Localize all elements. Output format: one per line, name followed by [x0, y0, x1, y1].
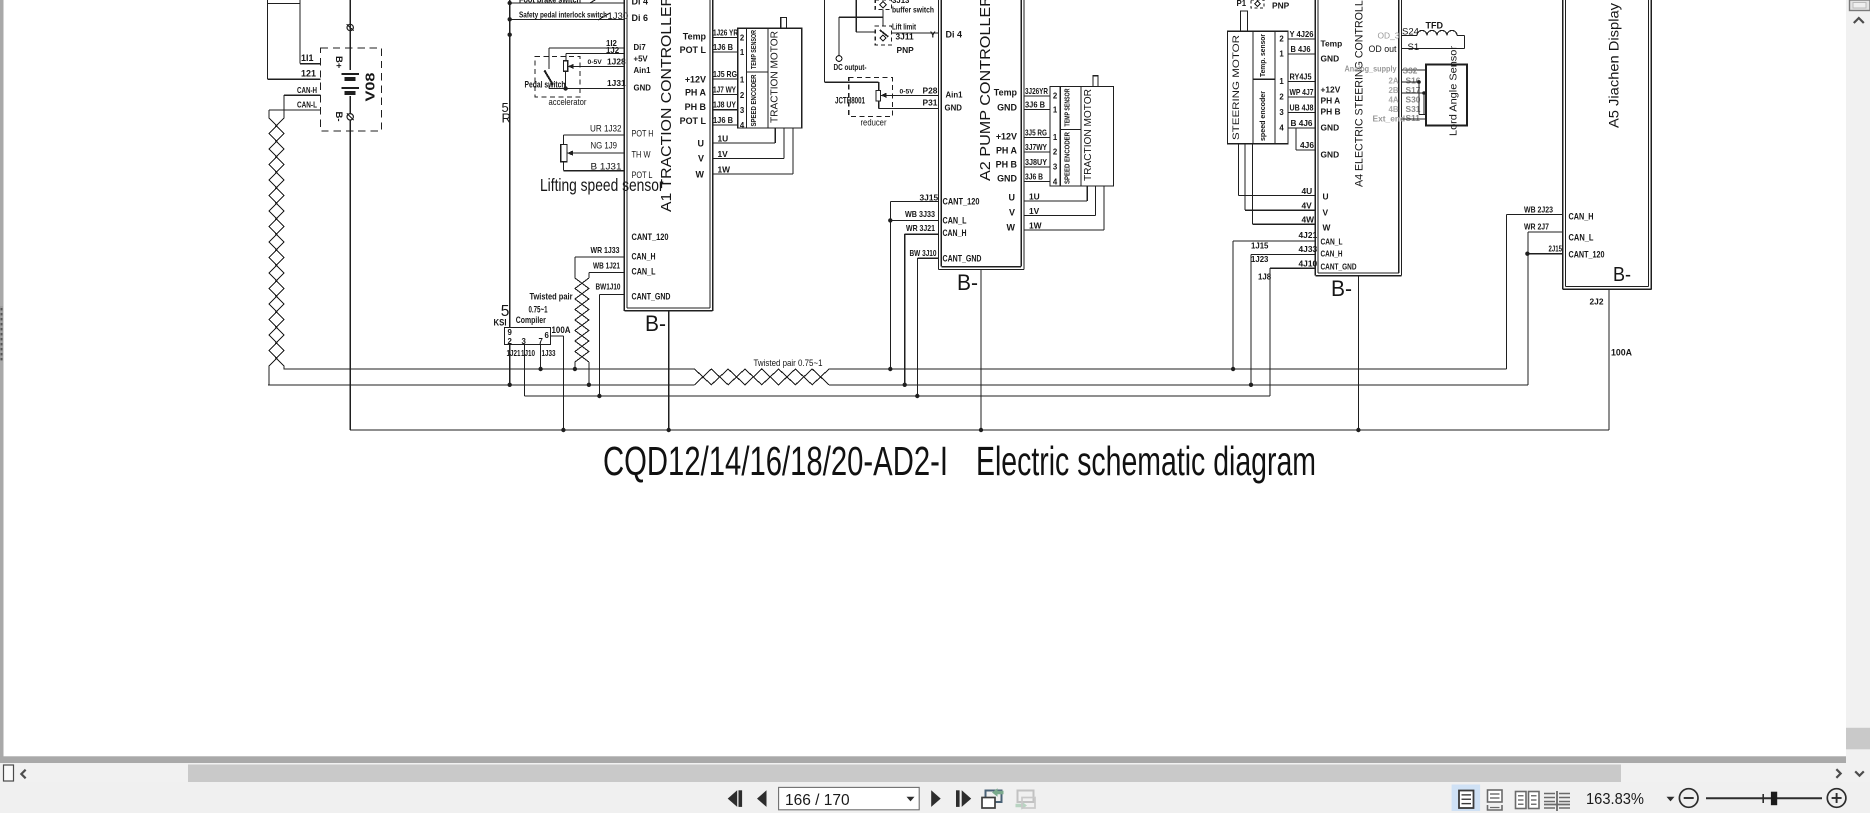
svg-text:2: 2: [1053, 92, 1058, 101]
svg-text:U: U: [1009, 193, 1015, 203]
svg-text:PH A: PH A: [1321, 96, 1341, 106]
display A5 Jiachen: [1563, 0, 1652, 289]
svg-text:P28: P28: [923, 86, 938, 96]
svg-text:+5V: +5V: [634, 55, 649, 64]
svg-text:B+: B+: [333, 56, 344, 69]
svg-text:1J8 UY: 1J8 UY: [713, 100, 736, 110]
svg-text:CAN_L: CAN_L: [632, 267, 656, 277]
wire A2 CANT_GND BW 3J10: [910, 248, 939, 396]
svg-text:1: 1: [1053, 133, 1058, 142]
svg-text:163.83%: 163.83%: [1586, 791, 1644, 808]
svg-text:Lift limit: Lift limit: [892, 23, 916, 32]
wire A2 temp sensor 3J26: [1024, 86, 1050, 109]
svg-text:Twisted pair: Twisted pair: [530, 292, 573, 302]
svg-text:BW1J10: BW1J10: [596, 282, 621, 292]
svg-text:1J8: 1J8: [1258, 273, 1272, 282]
svg-text:4J6: 4J6: [1300, 140, 1314, 150]
svg-text:GND: GND: [1321, 150, 1340, 160]
svg-text:TH W: TH W: [632, 150, 651, 161]
wire A5 CANT_120 2J15: [1525, 245, 1563, 256]
svg-text:TFD: TFD: [1426, 21, 1444, 31]
svg-text:PH B: PH B: [685, 102, 707, 112]
sensor A1 temp/speed encoder: [738, 28, 768, 130]
svg-text:B-: B-: [1331, 276, 1352, 301]
svg-text:A5 Jiachen Display: A5 Jiachen Display: [1606, 3, 1621, 128]
svg-text:6: 6: [545, 331, 550, 340]
controller A4 ELECTRIC STEERING: [1315, 0, 1405, 276]
svg-text:BW 3J10: BW 3J10: [910, 248, 937, 258]
svg-text:Temp. sensor: Temp. sensor: [1258, 34, 1267, 77]
svg-text:WR 3J21: WR 3J21: [906, 223, 935, 233]
wire 1Z1 to battery: [267, 0, 320, 79]
svg-text:3J11: 3J11: [896, 32, 915, 42]
svg-text:4U: 4U: [1302, 186, 1313, 196]
svg-text:TEMP SENSOR: TEMP SENSOR: [749, 30, 758, 69]
svg-text:Y 4J26: Y 4J26: [1290, 29, 1314, 39]
svg-text:V: V: [698, 154, 704, 164]
svg-text:CAN_L: CAN_L: [1569, 233, 1594, 243]
svg-text:S1: S1: [1408, 42, 1420, 53]
svg-text:4A: 4A: [1388, 96, 1398, 105]
svg-text:CAN_L: CAN_L: [943, 216, 967, 226]
wire A4 S32 analog supply: [1402, 66, 1427, 76]
svg-text:1V: 1V: [1029, 206, 1040, 216]
potentiometer accelerator: [549, 56, 626, 108]
wire DC output: [824, 0, 883, 91]
svg-text:3J8UY: 3J8UY: [1025, 157, 1047, 167]
wire A2 B-: [957, 270, 983, 433]
wire compiler pin3 1J10: [524, 345, 526, 397]
svg-text:4J21: 4J21: [1299, 230, 1318, 240]
svg-text:WR 1J33: WR 1J33: [591, 245, 620, 255]
svg-text:100A: 100A: [552, 325, 571, 336]
svg-text:GND: GND: [1321, 54, 1340, 64]
svg-text:reducer: reducer: [861, 118, 888, 129]
svg-text:CANT_GND: CANT_GND: [943, 254, 982, 264]
svg-text:JCTH8001: JCTH8001: [835, 96, 865, 106]
svg-text:3: 3: [740, 106, 745, 115]
motor M2 traction pump: [1081, 76, 1114, 186]
svg-text:B 1J31: B 1J31: [591, 162, 622, 173]
svg-text:CAN_H: CAN_H: [1569, 212, 1594, 222]
svg-text:POT H: POT H: [632, 129, 654, 140]
svg-text:Temp: Temp: [683, 32, 707, 42]
wire A2 CANT_120 3J15: [888, 193, 938, 370]
svg-text:CQD12/14/16/18/20-AD2-I: CQD12/14/16/18/20-AD2-I: [603, 438, 948, 484]
inductor TFD S24: [1402, 21, 1465, 54]
svg-text:Di 4: Di 4: [632, 0, 648, 7]
svg-text:+12V: +12V: [685, 75, 706, 85]
wire A4 CAN_H 4J33 1J23: [1251, 244, 1317, 385]
svg-text:1W: 1W: [718, 164, 731, 174]
svg-text:SPEED ENCODER: SPEED ENCODER: [749, 74, 758, 126]
wire steering encoder 4J5-4J6: [1288, 72, 1315, 151]
svg-text:Ain1: Ain1: [634, 66, 652, 75]
wire A4 S16 S17 S30 S31 S11: [1402, 76, 1427, 124]
title text: [603, 438, 1316, 484]
svg-text:1U: 1U: [1029, 191, 1040, 201]
svg-text:1W: 1W: [1029, 220, 1042, 230]
svg-text:GND: GND: [997, 174, 1017, 184]
svg-text:WP 4J7: WP 4J7: [1290, 87, 1314, 97]
svg-text:A1 TRACTION CONTROLLER (ACS4: A1 TRACTION CONTROLLER (ACS4: [659, 0, 675, 212]
svg-text:Di7: Di7: [634, 43, 647, 52]
svg-text:B 4J6: B 4J6: [1291, 44, 1311, 54]
switch lift limit 3J11 PNP: [875, 23, 938, 56]
svg-text:1J7 WY: 1J7 WY: [713, 84, 736, 94]
svg-text:4W: 4W: [1302, 215, 1315, 225]
svg-text:1J21: 1J21: [507, 349, 522, 358]
svg-text:V: V: [1009, 208, 1015, 218]
svg-text:121: 121: [301, 69, 316, 79]
svg-text:UR 1J32: UR 1J32: [590, 124, 622, 135]
svg-text:U: U: [1323, 192, 1329, 202]
wire compiler pin7 1J33: [538, 345, 542, 372]
wire steering sensor 4J26 4J6: [1288, 29, 1315, 54]
svg-text:KSI: KSI: [494, 318, 507, 328]
svg-text:1J28: 1J28: [607, 56, 626, 66]
wire steering motor 4U 4V 4W: [1238, 144, 1315, 225]
svg-text:1: 1: [1279, 77, 1284, 86]
svg-text:4: 4: [1279, 124, 1284, 133]
wire 1I1 to battery B+: [300, 0, 321, 64]
wire A2 encoder 3J5-3J6: [1024, 127, 1050, 181]
svg-text:PH B: PH B: [996, 160, 1018, 170]
svg-text:3J13: 3J13: [892, 0, 910, 5]
svg-text:A4 ELECTRIC STEERING CONTROLLE: A4 ELECTRIC STEERING CONTROLLER (APS80M: [1353, 0, 1365, 187]
svg-text:3J5 RG: 3J5 RG: [1025, 127, 1047, 137]
svg-text:2: 2: [1053, 148, 1058, 157]
svg-text:POT L: POT L: [680, 45, 707, 55]
svg-text:1: 1: [740, 48, 745, 57]
svg-text:CANT_120: CANT_120: [943, 197, 980, 207]
svg-text:CAN-H: CAN-H: [297, 86, 317, 95]
svg-text:Di 4: Di 4: [946, 30, 962, 40]
svg-text:2: 2: [1279, 35, 1284, 44]
sensor Lord Angle: [1426, 45, 1467, 136]
wire A1 motor 1U 1V 1W: [713, 128, 793, 174]
svg-text:2: 2: [740, 91, 745, 100]
svg-text:CANT_GND: CANT_GND: [1321, 262, 1357, 272]
svg-text:3J6 B: 3J6 B: [1025, 172, 1043, 182]
wire compiler pin2 1J21: [508, 345, 512, 387]
svg-text:WB 1J21: WB 1J21: [593, 260, 620, 270]
svg-text:accelerator: accelerator: [549, 97, 588, 108]
svg-text:OD out: OD out: [1369, 44, 1397, 55]
svg-text:4: 4: [1053, 178, 1058, 187]
svg-text:Safety pedal interlock switch: Safety pedal interlock switch: [519, 11, 607, 20]
svg-text:Temp: Temp: [1321, 39, 1343, 49]
svg-text:4J10: 4J10: [1299, 259, 1318, 269]
svg-text:2: 2: [1279, 93, 1284, 102]
wire A1 CAN_L WB 1J21: [589, 260, 624, 278]
wire A2 motor 1U 1V 1W: [1024, 186, 1104, 230]
wire A1 CANT_GND BW1J10: [596, 282, 625, 399]
svg-text:1J5 RG: 1J5 RG: [713, 69, 737, 79]
wire compiler 100A fuse: [551, 336, 566, 432]
svg-text:0-5V: 0-5V: [588, 59, 603, 66]
svg-text:166 / 170: 166 / 170: [785, 792, 850, 809]
svg-text:PH A: PH A: [685, 88, 707, 98]
svg-text:V: V: [1323, 208, 1329, 218]
svg-text:1J6 B: 1J6 B: [713, 42, 733, 52]
wire A5 CAN_L WR 2J7: [1524, 222, 1549, 232]
svg-text:2A: 2A: [1388, 77, 1398, 86]
svg-text:buffer switch: buffer switch: [892, 6, 934, 15]
svg-text:CAN_H: CAN_H: [1321, 249, 1343, 259]
svg-text:R: R: [502, 111, 511, 126]
wire CAN_H bus: [284, 214, 1563, 371]
twisted pair A1 CAN: [573, 278, 591, 387]
svg-text:P1: P1: [1237, 0, 1247, 8]
svg-text:WB 3J33: WB 3J33: [905, 209, 935, 219]
wire top link: [267, 3, 300, 5]
svg-text:speed encoder: speed encoder: [1258, 91, 1267, 141]
svg-text:9: 9: [508, 328, 513, 337]
svg-text:RY4J5: RY4J5: [1290, 72, 1312, 82]
svg-text:CAN_H: CAN_H: [943, 228, 967, 238]
controller A1 TRACTION: [624, 0, 712, 311]
svg-text:Lord Angle Sensor: Lord Angle Sensor: [1447, 45, 1459, 136]
svg-text:3: 3: [1053, 163, 1058, 172]
motor M3 steering: [1227, 0, 1289, 144]
svg-text:V08: V08: [363, 73, 378, 102]
svg-text:CAN_L: CAN_L: [1321, 237, 1343, 247]
svg-text:B-: B-: [645, 311, 666, 336]
wire A2 CAN_L WB 3J33: [890, 209, 938, 220]
svg-text:CANT_GND: CANT_GND: [632, 292, 671, 302]
svg-text:NG 1J9: NG 1J9: [591, 141, 618, 152]
svg-text:UB 4J8: UB 4J8: [1290, 103, 1314, 113]
svg-text:1J26 YR: 1J26 YR: [713, 28, 738, 38]
wire CAN-L from battery box: [269, 101, 321, 119]
svg-text:P31: P31: [923, 98, 938, 108]
svg-text:Electric schematic diagram: Electric schematic diagram: [976, 438, 1316, 484]
wire A4 B-: [1331, 276, 1361, 432]
svg-text:PNP: PNP: [1272, 1, 1290, 11]
wire CAN_L bus: [268, 232, 1563, 387]
svg-text:W: W: [1323, 223, 1331, 233]
svg-text:WB 2J23: WB 2J23: [1524, 205, 1553, 215]
svg-text:1I1: 1I1: [301, 53, 313, 63]
wire CANT_GND bus: [525, 268, 1316, 398]
svg-text:PH A: PH A: [996, 146, 1018, 156]
svg-text:+12V: +12V: [996, 132, 1017, 142]
svg-text:SPEED ENCODER: SPEED ENCODER: [1063, 132, 1072, 184]
wire A4 CAN_L 4J21 1J15: [1233, 230, 1317, 369]
svg-text:Y: Y: [930, 30, 936, 40]
svg-text:GND: GND: [1321, 123, 1340, 133]
svg-text:U: U: [698, 139, 704, 149]
svg-text:1J30: 1J30: [608, 11, 629, 22]
node KSI rail: [502, 0, 512, 327]
wire A1 CAN_H WR 1J33: [575, 245, 624, 278]
controller A2 PUMP: [939, 0, 1025, 270]
svg-text:PNP: PNP: [897, 45, 915, 55]
svg-text:CAN_H: CAN_H: [632, 252, 656, 262]
reducer JCTH8001: [835, 78, 939, 129]
wire A5 2J2 100A: [1590, 289, 1633, 430]
svg-text:CANT_120: CANT_120: [1569, 250, 1605, 260]
svg-text:Analog_supply: Analog_supply: [1345, 64, 1397, 74]
svg-text:0-5V: 0-5V: [900, 89, 915, 96]
svg-text:Foot brake switch: Foot brake switch: [519, 0, 581, 5]
svg-text:WR 2J7: WR 2J7: [1524, 222, 1549, 232]
wire +5V 1J2: [566, 46, 625, 61]
svg-text:1J2: 1J2: [606, 46, 620, 55]
motor M1 traction: [768, 18, 802, 129]
svg-text:TRACTION MOTOR: TRACTION MOTOR: [768, 31, 780, 123]
svg-text:TRACTION MOTOR: TRACTION MOTOR: [1082, 89, 1094, 181]
svg-text:S11: S11: [1406, 113, 1421, 123]
svg-text:S32: S32: [1403, 66, 1418, 76]
wire A1 temp sensor 1J26: [713, 28, 738, 53]
svg-text:2B: 2B: [1388, 86, 1398, 95]
svg-text:TEMP SENSOR: TEMP SENSOR: [1063, 88, 1072, 126]
wire A5 CAN_H WB 2J23: [1524, 205, 1553, 215]
svg-text:Temp: Temp: [994, 88, 1018, 98]
svg-text:B 4J6: B 4J6: [1291, 118, 1313, 128]
svg-text:2: 2: [740, 34, 745, 43]
svg-text:1: 1: [1279, 50, 1284, 59]
twisted pair main bus: [695, 358, 830, 385]
svg-text:1J15: 1J15: [1251, 242, 1269, 251]
svg-text:W: W: [1007, 223, 1016, 233]
svg-text:OD_3: OD_3: [1378, 31, 1400, 41]
svg-text:CANT_120: CANT_120: [632, 232, 669, 242]
svg-text:1J31: 1J31: [607, 78, 626, 88]
svg-text:1: 1: [740, 76, 745, 85]
svg-text:W: W: [696, 170, 705, 180]
twisted pair left CAN bus: [269, 118, 284, 385]
svg-text:4J33: 4J33: [1299, 244, 1318, 254]
svg-text:1J23: 1J23: [1251, 255, 1269, 264]
svg-text:3J7WY: 3J7WY: [1025, 142, 1047, 152]
switch foot brake: [510, 0, 625, 5]
svg-text:GND: GND: [997, 103, 1017, 113]
switch pedal: [525, 48, 581, 97]
svg-text:1J6 B: 1J6 B: [713, 115, 733, 125]
switch safety pedal interlock 1J30: [510, 11, 628, 23]
svg-text:0.75~1: 0.75~1: [529, 305, 548, 315]
wire A4 CANT_GND 4J10 1J8: [1258, 259, 1317, 282]
sensor steering temp/speed encoder: [1253, 31, 1288, 144]
svg-text:STEERING MOTOR: STEERING MOTOR: [1231, 35, 1242, 140]
svg-text:3: 3: [1279, 108, 1284, 117]
switch buffer 3J13: [856, 0, 934, 32]
battery GB 80V: [321, 0, 382, 430]
sensor A2 temp/speed encoder: [1050, 87, 1081, 187]
svg-text:100A: 100A: [1611, 348, 1632, 358]
wire A1 encoder 1J5-1J6: [713, 69, 738, 125]
wire Di7 1I2: [549, 39, 624, 48]
svg-text:2J2: 2J2: [1590, 297, 1604, 307]
wire A2 CAN_H WR 3J21: [905, 223, 939, 385]
wire CAN-H from battery box: [284, 86, 321, 118]
svg-text:Ain1: Ain1: [946, 91, 964, 100]
sensor lifting speed: [540, 124, 664, 196]
svg-text:GND: GND: [945, 104, 963, 113]
svg-text:A2 PUMP CONTROLLER (ACS4: A2 PUMP CONTROLLER (ACS4: [978, 0, 994, 181]
svg-text:4: 4: [740, 121, 745, 130]
svg-text:+12V: +12V: [1321, 85, 1341, 95]
svg-text:GND: GND: [634, 84, 652, 93]
wire B- bus bottom: [350, 429, 1609, 431]
svg-text:3J26YR: 3J26YR: [1025, 86, 1048, 96]
svg-text:3J6 B: 3J6 B: [1025, 99, 1045, 109]
svg-text:1J10: 1J10: [521, 349, 536, 358]
svg-text:B-: B-: [333, 112, 344, 122]
svg-text:1U: 1U: [718, 134, 729, 144]
svg-text:PH B: PH B: [1321, 107, 1341, 117]
svg-text:Twisted pair 0.75~1: Twisted pair 0.75~1: [754, 358, 823, 369]
connector compiler KSI: [494, 292, 573, 359]
svg-text:CAN-L: CAN-L: [297, 101, 317, 110]
svg-text:Ext_end: Ext_end: [1373, 114, 1406, 124]
svg-text:DC output-: DC output-: [834, 62, 867, 72]
svg-text:1V: 1V: [718, 149, 729, 159]
svg-text:2J15: 2J15: [1549, 245, 1563, 254]
svg-text:B-: B-: [1613, 264, 1631, 286]
svg-text:1: 1: [1053, 106, 1058, 115]
svg-text:B-: B-: [957, 270, 978, 295]
svg-text:1J33: 1J33: [542, 349, 557, 358]
wire A1 B-: [645, 311, 671, 432]
svg-text:4V: 4V: [1302, 201, 1313, 211]
svg-text:POT L: POT L: [632, 170, 653, 181]
svg-text:Di 6: Di 6: [632, 13, 648, 23]
svg-text:POT L: POT L: [680, 116, 707, 126]
svg-text:Compiler: Compiler: [516, 315, 546, 326]
svg-text:3J15: 3J15: [920, 193, 939, 203]
